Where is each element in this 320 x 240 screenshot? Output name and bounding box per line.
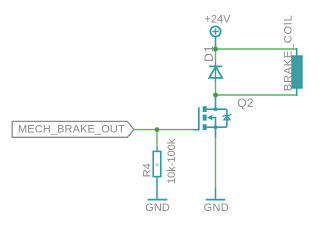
wire: drain junction to brake coil pin 2 <box>216 94 297 96</box>
junction: drain node <box>213 93 218 98</box>
internal node dots <box>214 107 218 111</box>
svg-text:BRAKE_COIL: BRAKE_COIL <box>282 15 294 92</box>
svg-text:+24V: +24V <box>205 14 232 26</box>
power symbol +24V <box>210 26 220 47</box>
wire: +24V down to D1 <box>215 46 217 64</box>
wire: vertical junction to R4 <box>156 130 158 148</box>
wire: D1 anode down to drain junction <box>215 81 217 96</box>
wire: net MECH_BRAKE_OUT horizontal to gate <box>134 129 195 131</box>
brake coil body <box>292 56 302 88</box>
brake coil pin stubs <box>296 48 298 57</box>
ground symbol under Q2 source <box>206 188 225 200</box>
bulk connection with arrow <box>212 118 216 128</box>
resistor R4 <box>153 148 161 200</box>
gate line <box>198 107 200 130</box>
transistor Q2 (N-MOSFET with body diode) <box>194 96 232 138</box>
pin D <box>215 96 217 109</box>
junction: gate/R4 node <box>155 127 160 132</box>
diode D1 <box>209 63 222 83</box>
junction: top node at D1 cathode <box>213 47 218 52</box>
svg-text:GND: GND <box>145 202 170 214</box>
ground symbol under R4 <box>148 199 168 201</box>
anchor cross <box>155 163 159 167</box>
svg-text:Q2: Q2 <box>237 96 254 110</box>
svg-text:GND: GND <box>204 202 229 214</box>
svg-text:R4: R4 <box>142 163 154 177</box>
svg-text:MECH_BRAKE_OUT: MECH_BRAKE_OUT <box>18 123 125 135</box>
drain connection <box>207 108 216 110</box>
body diode (zener) <box>223 114 231 120</box>
channel bars <box>203 106 207 112</box>
svg-text:10k-100k: 10k-100k <box>166 138 178 184</box>
source connection <box>207 126 216 128</box>
wire: top junction to brake coil pin 1 <box>216 48 297 50</box>
pin G <box>194 129 199 131</box>
body diode branch <box>216 109 227 127</box>
wire: Q2 source down to GND <box>215 137 217 190</box>
net label MECH_BRAKE_OUT <box>12 121 134 137</box>
pin S <box>215 127 217 137</box>
